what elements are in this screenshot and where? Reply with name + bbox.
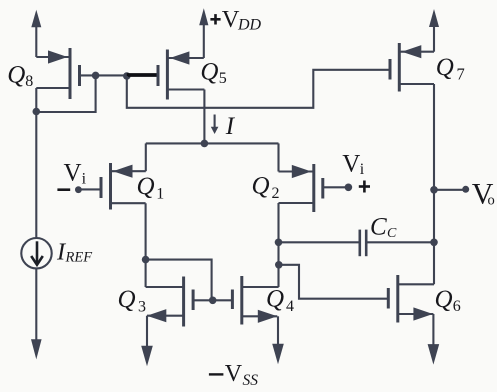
node Q3 Q4 gate junction (209, 297, 217, 305)
svg-text:SS: SS (243, 372, 259, 389)
svg-text:i: i (360, 161, 365, 178)
svg-text:Q: Q (118, 286, 136, 313)
transistor Q4 (232, 276, 278, 325)
svg-text:8: 8 (25, 73, 33, 90)
svg-text:V: V (342, 150, 360, 177)
wire tail current I node (146, 142, 279, 144)
svg-text:Q: Q (266, 286, 284, 313)
node branch to Q6 gate (275, 261, 283, 269)
svg-text:7: 7 (457, 64, 465, 83)
svg-text:V: V (64, 160, 82, 187)
wire Q4 source to VSS arrow (272, 316, 284, 364)
transistor Q8 (36, 48, 79, 99)
svg-text:I: I (225, 113, 236, 140)
wire gate-to-drain diode loop of Q8 (36, 75, 95, 112)
wire thick gate link to Q5 (127, 73, 159, 77)
label +VDD (210, 14, 220, 24)
wire Q1 drain down to Q3 drain (145, 203, 147, 287)
svg-text:V: V (225, 361, 243, 387)
current source IREF (21, 238, 51, 268)
node CC output rail junction (430, 239, 438, 247)
transistor Q2 (279, 164, 323, 212)
wire Q3 Q4 gates (193, 299, 232, 301)
svg-text:Q: Q (200, 58, 218, 85)
svg-text:1: 1 (156, 185, 164, 202)
transistor Q6 (388, 275, 434, 323)
wire I node to Q2 source (277, 143, 279, 171)
current annotation arrow I (211, 115, 219, 135)
node Q8 drain / IREF rail junction (33, 108, 41, 116)
svg-text:Q: Q (137, 173, 155, 200)
wire gate bus to Q7 (127, 70, 390, 108)
wire IREF to VSS arrow (31, 268, 42, 359)
node Vo tap (430, 186, 438, 194)
wire Q3 diode link to gates (146, 260, 212, 301)
input terminal Vi+ (323, 186, 349, 188)
svg-text:C: C (370, 213, 387, 240)
wire output rail Q7 drain to Q6 drain (433, 84, 435, 284)
svg-text:C: C (387, 226, 397, 241)
transistor Q7 (390, 43, 434, 92)
power arrow to +VDD above Q5 (199, 8, 208, 58)
wire Q5 drain down to I node (203, 90, 205, 144)
svg-text:Q: Q (252, 173, 270, 200)
svg-text:2: 2 (272, 185, 280, 202)
wire IREF rail (35, 88, 37, 238)
node Q1 drain / Q3 gate link (142, 256, 150, 264)
power arrow to +VDD above Q7 (429, 9, 439, 52)
wire Q8 gate to gate bus (80, 74, 128, 76)
wire I node to Q1 source (145, 143, 147, 171)
svg-text:V: V (222, 6, 240, 33)
node Q2 drain / CC junction (275, 239, 283, 247)
svg-text:DD: DD (237, 17, 262, 34)
node Q8 gate junction (92, 72, 100, 80)
wire Q6 source to VSS arrow (428, 314, 440, 365)
wire CC right (366, 241, 434, 243)
svg-text:Q: Q (435, 286, 453, 313)
capacitor CC (360, 230, 366, 257)
wire Vo tap (434, 189, 466, 191)
wire Q2 drain down to Q4 drain (277, 203, 279, 287)
transistor Q5 (158, 50, 204, 100)
input terminal Vi- (78, 188, 101, 190)
svg-text:Q: Q (7, 61, 25, 88)
svg-text:Q: Q (436, 54, 454, 81)
node I (201, 140, 209, 148)
power arrow to +VDD above Q8 (31, 10, 41, 57)
wire to Q6 gate (279, 265, 389, 299)
svg-text:REF: REF (65, 249, 93, 265)
transistor Q1 (101, 163, 146, 210)
wire CC left (279, 241, 360, 243)
terminal Vo (462, 186, 469, 193)
svg-text:3: 3 (138, 299, 146, 316)
svg-text:5: 5 (219, 70, 227, 87)
svg-text:4: 4 (286, 298, 294, 315)
transistor Q3 (146, 277, 194, 327)
wire Q3 source to VSS arrow (141, 316, 153, 367)
label -VSS (209, 373, 224, 375)
node gate bus branch (123, 72, 131, 80)
svg-text:i: i (82, 170, 87, 187)
svg-text:o: o (488, 193, 495, 209)
svg-text:6: 6 (453, 298, 461, 315)
